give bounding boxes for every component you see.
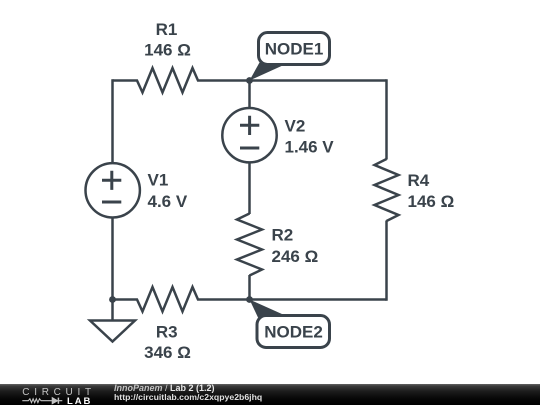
svg-text:R3: R3 [156,323,178,342]
svg-text:NODE1: NODE1 [265,40,324,59]
logo diode bar [57,398,59,404]
wire V2 to R2 [248,162,251,214]
svg-text:R2: R2 [272,226,294,245]
V1 plus sign [102,171,121,190]
resistor R3 [113,287,250,312]
V2 minus sign [240,147,259,150]
svg-text:R4: R4 [408,171,430,190]
node NODE2 flag box [257,316,330,348]
svg-text:V1: V1 [148,171,169,190]
CircuitLab logo [0,384,100,405]
wire right vertical top (R4 top lead) [385,79,388,159]
node NODE2 flag tail [250,300,288,318]
svg-text:146 Ω: 146 Ω [144,41,191,60]
ground stub [111,300,114,321]
node NODE1 flag tail [250,63,288,81]
logo diode symbol [52,398,57,404]
wire bottom right [250,298,387,301]
node NODE1 flag box [259,33,330,65]
wire top right [250,79,387,82]
wire R2 bottom lead [248,275,251,300]
voltage source V1 [86,163,140,217]
node junction dot left bottom [109,296,116,303]
footer credit text [114,384,262,404]
resistor R2 [237,214,262,276]
svg-text:V2: V2 [285,117,306,136]
svg-text:346 Ω: 346 Ω [144,343,191,362]
V1 minus sign [102,201,121,204]
voltage source V2 [222,108,276,162]
logo schematic wire with resistor and diode [22,399,62,403]
wire V2 top lead [248,81,251,109]
node junction dot NODE2 [246,296,253,303]
wire right vertical bottom (R4 bottom lead) [385,221,388,301]
wire left vertical top (node1 loop left) [111,79,114,163]
svg-text:1.46 V: 1.46 V [285,138,335,157]
svg-text:R1: R1 [156,20,178,39]
svg-text:246 Ω: 246 Ω [272,247,319,266]
footer bar [0,384,540,405]
V2 plus sign [240,116,259,135]
svg-text:146 Ω: 146 Ω [408,192,455,211]
ground symbol [90,321,135,342]
svg-text:LAB: LAB [67,396,92,405]
resistor R1 [113,68,250,93]
node junction dot NODE1 [246,77,253,84]
resistor R4 [375,159,399,221]
wire left vertical bottom [111,217,114,299]
svg-text:4.6 V: 4.6 V [148,192,188,211]
svg-text:NODE2: NODE2 [264,323,323,342]
